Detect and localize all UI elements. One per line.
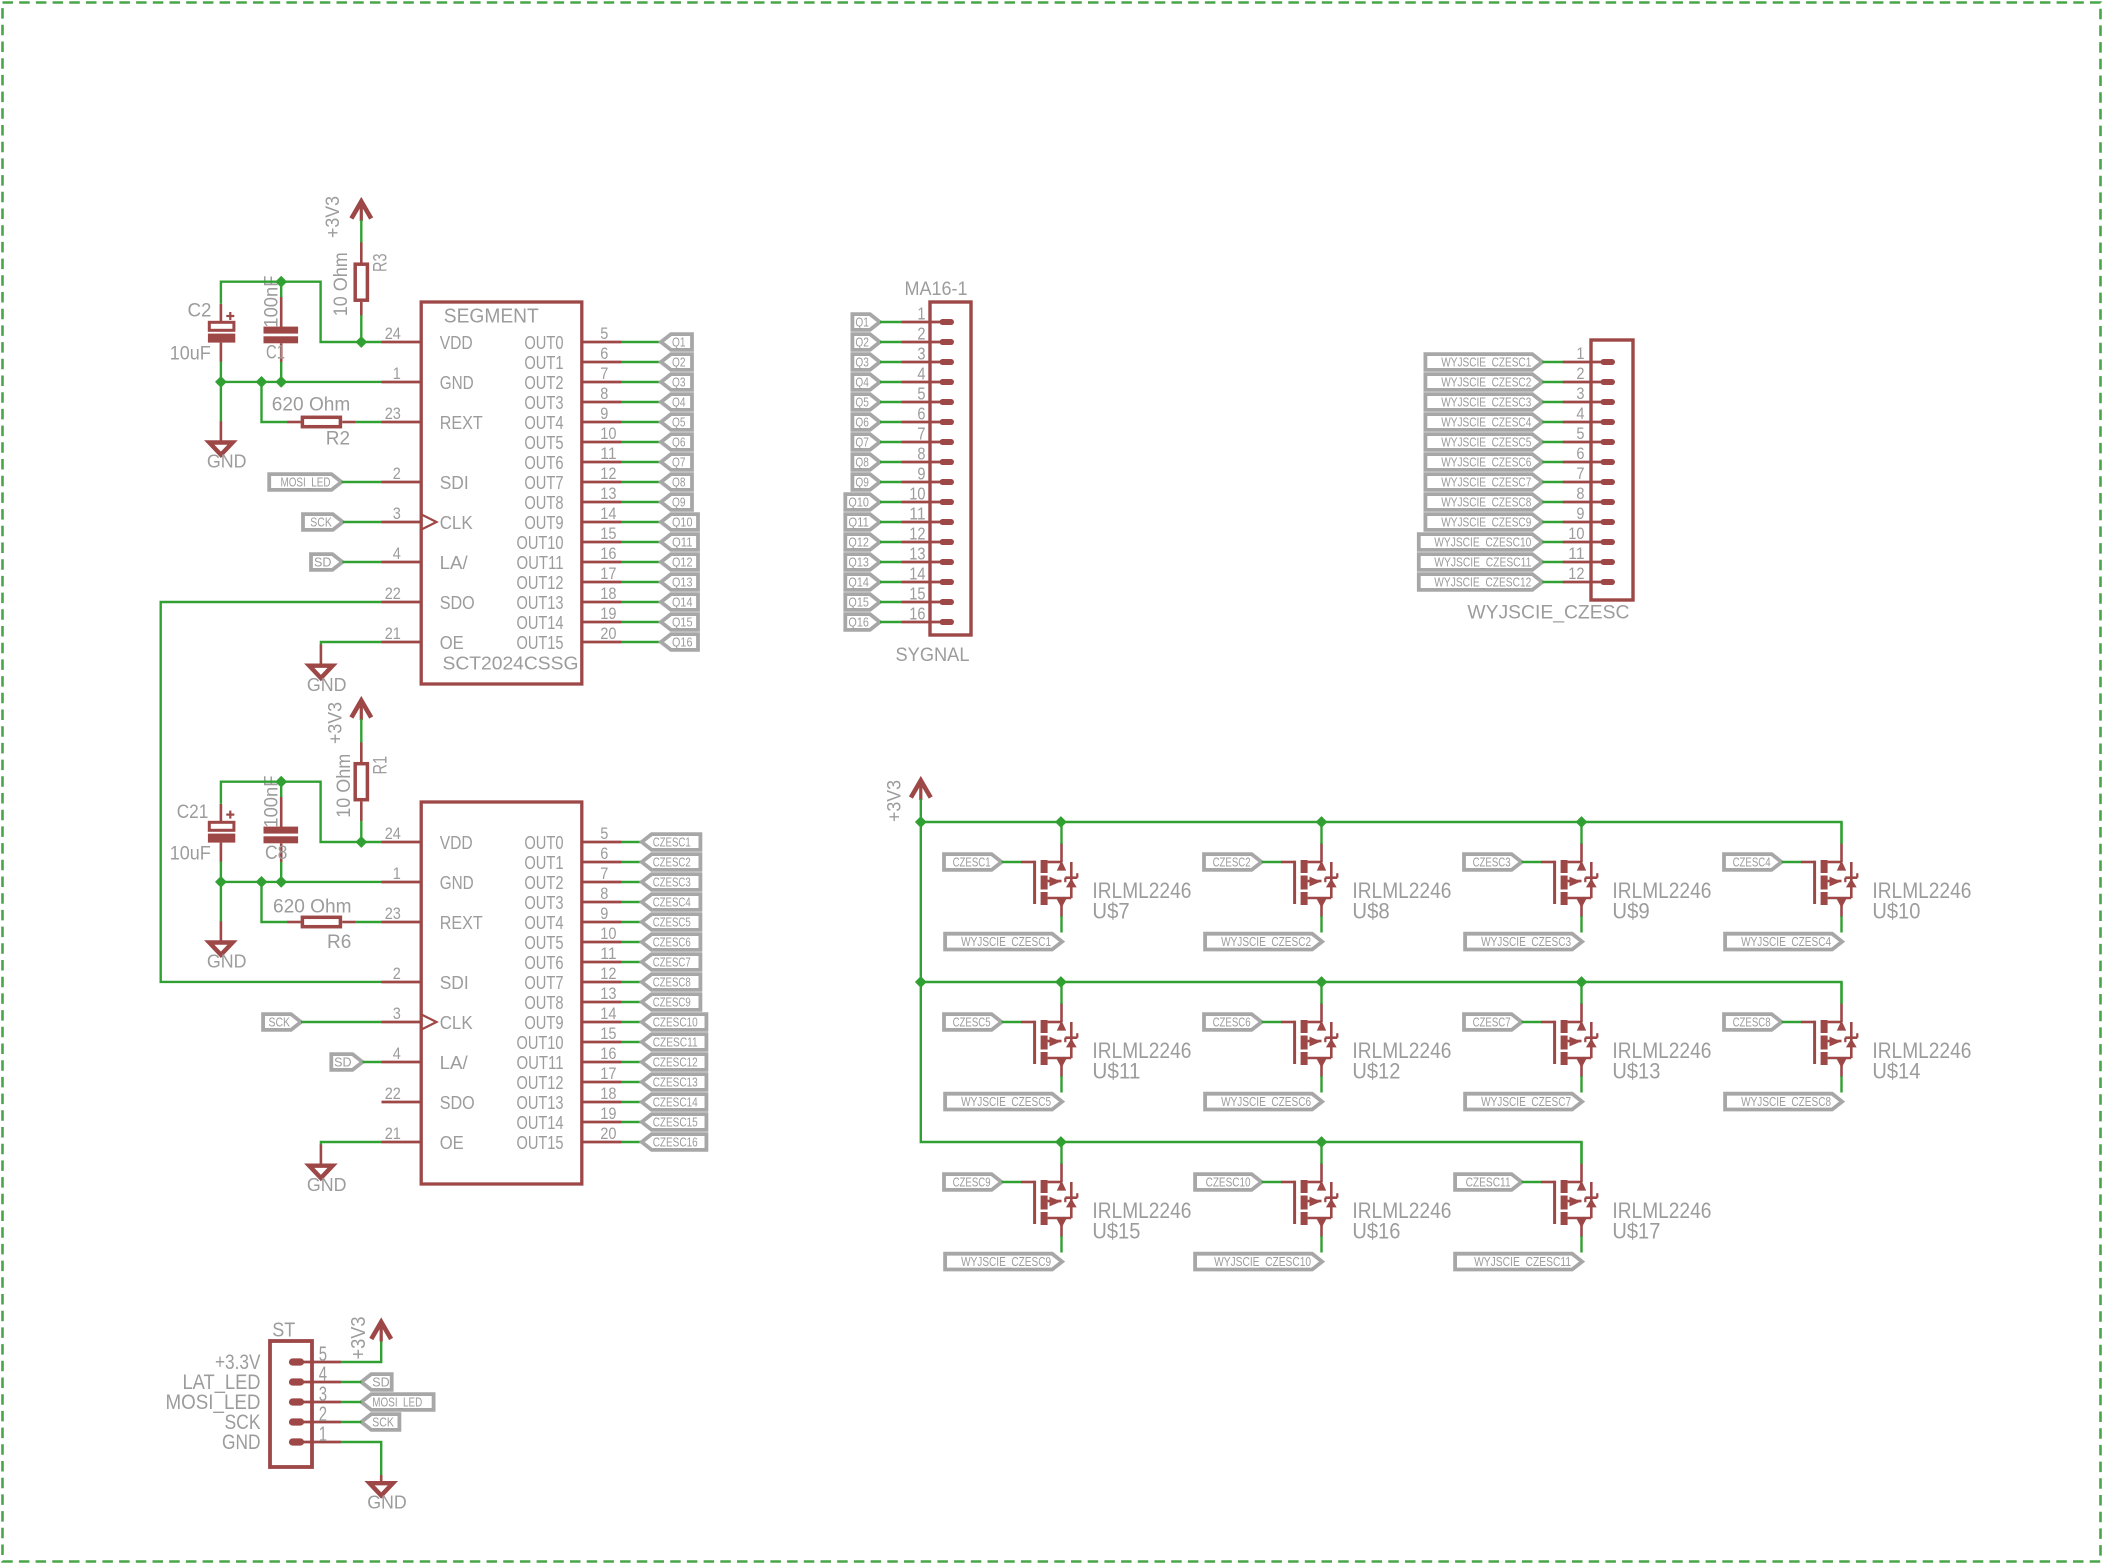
wire CZESC5 to gate [1002, 1021, 1022, 1023]
wire bus to drain U$12 [1320, 982, 1322, 1004]
wire R6 to IC2 REXT pin 23 [355, 921, 382, 923]
svg-text:11: 11 [1568, 545, 1584, 563]
wire ST pin3 to MOSI_LED [341, 1401, 362, 1403]
svg-text:2: 2 [393, 464, 401, 483]
svg-text:CZESC3: CZESC3 [653, 875, 691, 889]
wire source to WYJSCIE_CZESC6 [1320, 1076, 1322, 1093]
net flag WYJSCIE_CZESC10 (source U$16) [1195, 1254, 1322, 1270]
wire R3 bottom to VDD net [360, 315, 362, 342]
wire GND net to IC2 GND pin 1 [221, 862, 382, 882]
wire bus to drain U$17 [1580, 1142, 1582, 1164]
svg-text:10: 10 [909, 483, 925, 503]
svg-text:OUT9: OUT9 [524, 512, 563, 533]
net flag WYJSCIE_CZESC4 (connector) [1425, 414, 1542, 430]
net flag Q10 (MA16-1) [845, 494, 880, 510]
junction GND/C21 [215, 876, 227, 888]
transistor U$11 IRLML2246 [1021, 1003, 1191, 1084]
svg-text:17: 17 [600, 1064, 616, 1083]
wire bus to drain U$10 [1840, 822, 1842, 844]
svg-text:WYJSCIE_CZESC4: WYJSCIE_CZESC4 [1441, 415, 1531, 429]
svg-text:CZESC4: CZESC4 [1733, 855, 1771, 869]
svg-text:OUT10: OUT10 [517, 1032, 564, 1053]
svg-text:WYJSCIE_CZESC8: WYJSCIE_CZESC8 [1741, 1095, 1831, 1109]
transistor U$9 IRLML2246 [1541, 843, 1711, 924]
svg-text:CLK: CLK [440, 1012, 474, 1033]
svg-text:6: 6 [1576, 445, 1584, 463]
transistor U$16 IRLML2246 [1281, 1163, 1451, 1244]
pin 20 OUT15 [517, 624, 622, 653]
supply +3V3 (R3) [323, 196, 371, 238]
svg-text:11: 11 [600, 944, 616, 963]
svg-text:Q16: Q16 [848, 615, 869, 629]
wire CZESC9 to gate [1002, 1181, 1022, 1183]
wire OUT12 to Q13 [622, 581, 662, 583]
svg-text:CZESC1: CZESC1 [953, 855, 991, 869]
net flag Q6 (MA16-1) [852, 414, 880, 430]
transistor U$17 IRLML2246 [1541, 1163, 1711, 1244]
net flag Q7 [661, 454, 692, 470]
wire IC2 OUT5 to CZESC6 [622, 941, 642, 943]
svg-text:+3V3: +3V3 [323, 196, 344, 238]
svg-text:Q11: Q11 [848, 515, 869, 529]
svg-text:1: 1 [1576, 345, 1584, 363]
net flag WYJSCIE_CZESC3 (source U$9) [1465, 934, 1582, 950]
svg-text:CZESC9: CZESC9 [953, 1175, 991, 1189]
svg-text:Q9: Q9 [672, 495, 686, 509]
svg-text:CZESC11: CZESC11 [1466, 1175, 1511, 1189]
svg-text:20: 20 [600, 1124, 616, 1143]
net flag CZESC5 (gate U$11) [944, 1014, 1002, 1030]
net flag SD (ST pin4) [361, 1374, 391, 1390]
svg-text:OUT5: OUT5 [524, 932, 563, 953]
net flag Q8 (MA16-1) [852, 454, 880, 470]
wire C8 bottom branch [280, 862, 282, 882]
svg-text:WYJSCIE_CZESC5: WYJSCIE_CZESC5 [1441, 435, 1531, 449]
svg-text:2: 2 [917, 323, 925, 343]
svg-text:SCK: SCK [310, 515, 332, 529]
svg-text:CZESC6: CZESC6 [653, 935, 691, 949]
svg-text:OUT7: OUT7 [524, 472, 563, 493]
net flag WYJSCIE_CZESC8 (connector) [1425, 494, 1542, 510]
wire WYJSCIE_CZESC1 to pin 1 [1542, 361, 1563, 363]
svg-text:Q13: Q13 [672, 575, 693, 589]
svg-text:Q12: Q12 [848, 535, 869, 549]
svg-text:U$17: U$17 [1612, 1219, 1660, 1244]
svg-text:OUT10: OUT10 [517, 532, 564, 553]
ground symbol (C2) [207, 421, 247, 471]
net flag WYJSCIE_CZESC11 (connector) [1419, 554, 1543, 570]
net flag CZESC3 (gate U$9) [1464, 854, 1522, 870]
svg-text:U$15: U$15 [1092, 1219, 1140, 1244]
wire bus to drain U$9 [1580, 822, 1582, 844]
pin 9 OUT4 [524, 404, 621, 433]
net flag Q14 (MA16-1) [845, 574, 880, 590]
svg-text:OUT4: OUT4 [524, 412, 563, 433]
net flag CZESC10 (gate U$16) [1195, 1174, 1262, 1190]
wire CZESC11 to gate [1522, 1181, 1542, 1183]
pin 20 OUT15 [517, 1124, 622, 1153]
net flag WYJSCIE_CZESC9 (connector) [1425, 514, 1542, 530]
svg-text:4: 4 [393, 1044, 401, 1063]
IC U1 SCT2024CSSG SEGMENT box [421, 302, 582, 684]
svg-text:CZESC13: CZESC13 [653, 1075, 698, 1089]
svg-text:OUT4: OUT4 [524, 912, 563, 933]
svg-text:WYJSCIE_CZESC5: WYJSCIE_CZESC5 [961, 1095, 1051, 1109]
pin 2 SDI [382, 964, 469, 993]
net flag Q4 [661, 394, 692, 410]
net flag CZESC16 [642, 1134, 707, 1150]
svg-text:MOSI_LED: MOSI_LED [281, 475, 331, 489]
svg-text:OUT13: OUT13 [517, 592, 564, 613]
svg-text:C1: C1 [266, 343, 285, 364]
svg-text:Q4: Q4 [855, 375, 869, 389]
svg-text:ST: ST [272, 1320, 295, 1342]
wire CZESC8 to gate [1782, 1021, 1802, 1023]
wire Q4 to MA16-1 pin 4 [880, 381, 902, 383]
wire ST pin4 to SD [341, 1381, 362, 1383]
pin 17 OUT12 [517, 564, 622, 593]
net flag WYJSCIE_CZESC7 (connector) [1425, 474, 1542, 490]
wire IC2 OUT7 to CZESC8 [622, 981, 642, 983]
MA16-1 pin 5 [902, 383, 952, 403]
svg-text:24: 24 [385, 824, 401, 843]
ST pin 3 MOSI_LED [166, 1383, 342, 1414]
net flag WYJSCIE_CZESC4 (source U$10) [1725, 934, 1842, 950]
svg-text:CZESC7: CZESC7 [1473, 1015, 1511, 1029]
svg-text:SCK: SCK [372, 1415, 394, 1429]
svg-text:13: 13 [909, 543, 925, 563]
capacitor C21 10uF [170, 802, 236, 864]
svg-text:C21: C21 [177, 802, 209, 823]
pin 2 SDI [382, 464, 469, 493]
svg-text:OUT0: OUT0 [524, 332, 563, 353]
wire Q1 to MA16-1 pin 1 [880, 321, 902, 323]
net flag CZESC4 [642, 894, 701, 910]
svg-text:WYJSCIE_CZESC8: WYJSCIE_CZESC8 [1441, 495, 1531, 509]
svg-text:4: 4 [393, 544, 401, 563]
svg-text:CZESC6: CZESC6 [1213, 1015, 1251, 1029]
svg-text:8: 8 [917, 443, 925, 463]
pin 21 OE [382, 1124, 464, 1153]
svg-text:23: 23 [385, 904, 401, 923]
svg-text:WYJSCIE_CZESC3: WYJSCIE_CZESC3 [1441, 395, 1531, 409]
wire IC2 OUT11 to CZESC12 [622, 1061, 642, 1063]
svg-text:10uF: 10uF [170, 343, 211, 364]
transistor U$15 IRLML2246 [1021, 1163, 1191, 1244]
wire IC2 OUT1 to CZESC2 [622, 861, 642, 863]
wire Q15 to MA16-1 pin 15 [880, 601, 902, 603]
svg-text:15: 15 [909, 583, 925, 603]
pin 24 VDD [382, 324, 473, 353]
pin 15 OUT10 [517, 524, 622, 553]
net flag CZESC1 (gate U$7) [944, 854, 1002, 870]
junction GND/R6 [256, 876, 268, 888]
wire CZESC1 to gate [1002, 861, 1022, 863]
svg-text:20: 20 [600, 624, 616, 643]
svg-text:21: 21 [385, 1124, 401, 1143]
svg-text:WYJSCIE_CZESC7: WYJSCIE_CZESC7 [1441, 475, 1531, 489]
svg-text:Q8: Q8 [672, 475, 686, 489]
pin 11 OUT6 [524, 944, 621, 973]
pin 7 OUT2 [524, 864, 621, 893]
net flag CZESC15 [642, 1114, 707, 1130]
svg-text:5: 5 [600, 324, 608, 343]
svg-text:MOSI_LED: MOSI_LED [372, 1395, 422, 1409]
net flag SD (IC2 LA/) [331, 1054, 362, 1070]
wire Q7 to MA16-1 pin 7 [880, 441, 902, 443]
wire +3V3 to R1 [360, 719, 362, 743]
junction R1/VDD [355, 836, 367, 848]
WYJSCIE_CZESC pin 10 [1563, 525, 1613, 543]
svg-text:GND: GND [440, 372, 474, 393]
wire SCK to IC2 CLK [301, 1021, 382, 1023]
svg-text:CZESC12: CZESC12 [653, 1055, 698, 1069]
pin 12 OUT7 [524, 464, 621, 493]
svg-text:OUT9: OUT9 [524, 1012, 563, 1033]
svg-text:12: 12 [1568, 565, 1584, 583]
junction GND/C8 [275, 876, 287, 888]
net flag CZESC7 [642, 954, 701, 970]
svg-text:SD: SD [314, 555, 331, 569]
svg-text:CZESC10: CZESC10 [653, 1015, 698, 1029]
WYJSCIE_CZESC pin 6 [1563, 445, 1613, 463]
net flag CZESC8 [642, 974, 701, 990]
junction bus row2 [1055, 976, 1067, 988]
svg-text:1: 1 [393, 864, 401, 883]
svg-text:OUT2: OUT2 [524, 372, 563, 393]
net flag WYJSCIE_CZESC3 (connector) [1425, 394, 1542, 410]
ST pin 1 GND [222, 1423, 341, 1454]
svg-text:Q13: Q13 [848, 555, 869, 569]
svg-text:19: 19 [600, 604, 616, 623]
wire WYJSCIE_CZESC6 to pin 6 [1542, 461, 1563, 463]
net flag MOSI_LED (ST pin3) [361, 1394, 433, 1410]
wire OUT1 to Q2 [622, 361, 662, 363]
junction C1 top [275, 276, 287, 288]
wire Q14 to MA16-1 pin 14 [880, 581, 902, 583]
svg-text:OUT5: OUT5 [524, 432, 563, 453]
svg-text:5: 5 [1576, 425, 1584, 443]
svg-text:OUT11: OUT11 [517, 552, 564, 573]
IC U2 SCT2024CSSG box [421, 802, 582, 1184]
wire C1 top branch [280, 282, 282, 297]
svg-text:Q1: Q1 [672, 335, 686, 349]
wire SD to LA/ [342, 561, 381, 563]
wire bus to drain U$16 [1320, 1142, 1322, 1164]
wire IC2 OE to ground [321, 1142, 382, 1145]
net flag Q16 [661, 634, 698, 650]
wire source to WYJSCIE_CZESC10 [1320, 1236, 1322, 1253]
wire source to WYJSCIE_CZESC5 [1060, 1076, 1062, 1093]
transistor U$10 IRLML2246 [1801, 843, 1971, 924]
pin 22 SDO [382, 584, 475, 613]
svg-text:U$14: U$14 [1872, 1059, 1920, 1084]
svg-text:16: 16 [909, 603, 925, 623]
pin 5 OUT0 [524, 824, 621, 853]
wire CZESC4 to gate [1782, 861, 1802, 863]
net flag Q10 [661, 514, 698, 530]
WYJSCIE_CZESC pin 4 [1563, 405, 1613, 423]
svg-text:9: 9 [1576, 505, 1584, 523]
net flag Q11 [661, 534, 698, 550]
pin 3 CLK [382, 1004, 474, 1033]
ground symbol (C21) [207, 921, 247, 971]
svg-text:WYJSCIE_CZESC12: WYJSCIE_CZESC12 [1434, 575, 1531, 589]
pin 18 OUT13 [517, 1084, 622, 1113]
net flag Q11 (MA16-1) [845, 514, 880, 530]
svg-text:7: 7 [1576, 465, 1584, 483]
wire Q11 to MA16-1 pin 11 [880, 521, 902, 523]
svg-text:7: 7 [917, 423, 925, 443]
wire bus to drain U$11 [1060, 982, 1062, 1004]
svg-text:14: 14 [600, 1004, 616, 1023]
svg-text:WYJSCIE_CZESC1: WYJSCIE_CZESC1 [1441, 355, 1531, 369]
wire bus to drain U$14 [1840, 982, 1842, 1004]
wire IC1 OE to ground [321, 642, 382, 645]
pin 14 OUT9 [524, 1004, 621, 1033]
svg-text:620 Ohm: 620 Ohm [272, 395, 351, 416]
svg-text:8: 8 [1576, 485, 1584, 503]
svg-text:3: 3 [393, 504, 401, 523]
svg-text:WYJSCIE_CZESC11: WYJSCIE_CZESC11 [1434, 555, 1531, 569]
svg-text:R1: R1 [371, 756, 392, 775]
svg-text:9: 9 [600, 904, 608, 923]
wire source to WYJSCIE_CZESC4 [1840, 916, 1842, 933]
net flag Q6 [661, 434, 692, 450]
svg-text:Q10: Q10 [672, 515, 693, 529]
svg-text:6: 6 [600, 344, 608, 363]
MA16-1 pin 16 [902, 603, 952, 623]
wire OUT0 to Q1 [622, 341, 662, 343]
wire +3V3 net to VDD pin 24 [221, 282, 382, 342]
pin 23 REXT [382, 904, 483, 933]
svg-text:3: 3 [917, 343, 925, 363]
net flag Q3 [661, 374, 692, 390]
net flag SCK (IC1 CLK) [303, 514, 343, 530]
svg-text:WYJSCIE_CZESC2: WYJSCIE_CZESC2 [1441, 375, 1531, 389]
pin 11 OUT6 [524, 444, 621, 473]
svg-text:OUT12: OUT12 [517, 1072, 564, 1093]
svg-text:SEGMENT: SEGMENT [444, 305, 539, 327]
net flag Q14 [661, 594, 698, 610]
transistor U$14 IRLML2246 [1801, 1003, 1971, 1084]
svg-text:SDI: SDI [440, 972, 469, 993]
wire WYJSCIE_CZESC3 to pin 3 [1542, 401, 1563, 403]
pin 13 OUT8 [524, 984, 621, 1013]
wire +3V3 row3 bus [1061, 1142, 1582, 1163]
resistor R3 10 Ohm [331, 242, 392, 316]
wire CZESC7 to gate [1522, 1021, 1542, 1023]
svg-text:6: 6 [917, 403, 925, 423]
svg-text:Q5: Q5 [855, 395, 869, 409]
svg-text:Q16: Q16 [672, 635, 693, 649]
svg-text:U$7: U$7 [1092, 899, 1129, 924]
wire R2 to REXT pin 23 [355, 421, 382, 423]
connector X1 MA16-1 body [896, 278, 972, 666]
pin 14 OUT9 [524, 504, 621, 533]
supply +3V3 (transistor bank) [885, 780, 931, 822]
pin 10 OUT5 [524, 924, 621, 953]
wire WYJSCIE_CZESC7 to pin 7 [1542, 481, 1563, 483]
wire OUT4 to Q5 [622, 421, 662, 423]
svg-text:OUT3: OUT3 [524, 892, 563, 913]
pin 10 OUT5 [524, 424, 621, 453]
svg-text:WYJSCIE_CZESC6: WYJSCIE_CZESC6 [1221, 1095, 1311, 1109]
junction GND/R2 [256, 376, 268, 388]
wire SCK to CLK [343, 521, 382, 523]
wire source to WYJSCIE_CZESC2 [1320, 916, 1322, 933]
wire source to WYJSCIE_CZESC3 [1580, 916, 1582, 933]
svg-text:GND: GND [222, 1431, 261, 1454]
wire IC2 OUT8 to CZESC9 [622, 1001, 642, 1003]
wire CZESC3 to gate [1522, 861, 1542, 863]
wire +3V3 to R3 [360, 220, 362, 243]
svg-text:Q8: Q8 [855, 455, 869, 469]
net flag CZESC12 [642, 1054, 707, 1070]
net flag SCK (IC2 CLK) [263, 1014, 301, 1030]
svg-text:CZESC8: CZESC8 [653, 975, 691, 989]
svg-text:OUT14: OUT14 [517, 1112, 564, 1133]
svg-text:2: 2 [1576, 365, 1584, 383]
MA16-1 pin 3 [902, 343, 952, 363]
pin 1 GND [382, 864, 474, 893]
net flag Q12 (MA16-1) [845, 534, 880, 550]
net flag WYJSCIE_CZESC6 (connector) [1425, 454, 1542, 470]
svg-text:1: 1 [319, 1423, 327, 1446]
net flag Q2 (MA16-1) [852, 334, 880, 350]
svg-text:5: 5 [600, 824, 608, 843]
wire C8 top branch [280, 782, 282, 797]
svg-text:Q6: Q6 [672, 435, 686, 449]
svg-text:WYJSCIE_CZESC2: WYJSCIE_CZESC2 [1221, 935, 1311, 949]
wire Q5 to MA16-1 pin 5 [880, 401, 902, 403]
net flag CZESC6 (gate U$12) [1204, 1014, 1262, 1030]
net flag WYJSCIE_CZESC5 (source U$11) [945, 1094, 1062, 1110]
net flag Q9 [661, 494, 692, 510]
wire WYJSCIE_CZESC10 to pin 10 [1542, 541, 1563, 543]
net flag Q13 (MA16-1) [845, 554, 880, 570]
net flag CZESC6 [642, 934, 701, 950]
svg-text:WYJSCIE_CZESC10: WYJSCIE_CZESC10 [1214, 1255, 1311, 1269]
MA16-1 pin 11 [902, 503, 952, 523]
wire OUT7 to Q8 [622, 481, 662, 483]
net flag CZESC2 [642, 854, 701, 870]
MA16-1 pin 12 [902, 523, 952, 543]
net flag Q1 [661, 334, 692, 350]
wire IC2 OUT13 to CZESC14 [622, 1101, 642, 1103]
svg-text:VDD: VDD [440, 332, 473, 353]
net flag CZESC11 [642, 1034, 707, 1050]
ST pin 5 +3.3V [215, 1343, 341, 1374]
svg-text:11: 11 [909, 503, 925, 523]
net flag Q5 [661, 414, 692, 430]
svg-text:CLK: CLK [440, 512, 474, 533]
junction bus row2 [1316, 976, 1328, 988]
wire R6 branch from GND net [262, 882, 288, 922]
svg-text:15: 15 [600, 524, 616, 543]
MA16-1 pin 4 [902, 363, 952, 383]
svg-text:WYJSCIE_CZESC7: WYJSCIE_CZESC7 [1481, 1095, 1571, 1109]
pin 7 OUT2 [524, 364, 621, 393]
supply +3V3 (ST) [347, 1317, 391, 1360]
svg-text:CZESC14: CZESC14 [653, 1095, 698, 1109]
svg-text:22: 22 [385, 584, 401, 603]
svg-text:LA/: LA/ [440, 1052, 469, 1073]
svg-text:7: 7 [600, 364, 608, 383]
net flag SCK (ST pin2) [361, 1414, 399, 1430]
svg-text:11: 11 [600, 444, 616, 463]
net flag WYJSCIE_CZESC2 (connector) [1425, 374, 1542, 390]
